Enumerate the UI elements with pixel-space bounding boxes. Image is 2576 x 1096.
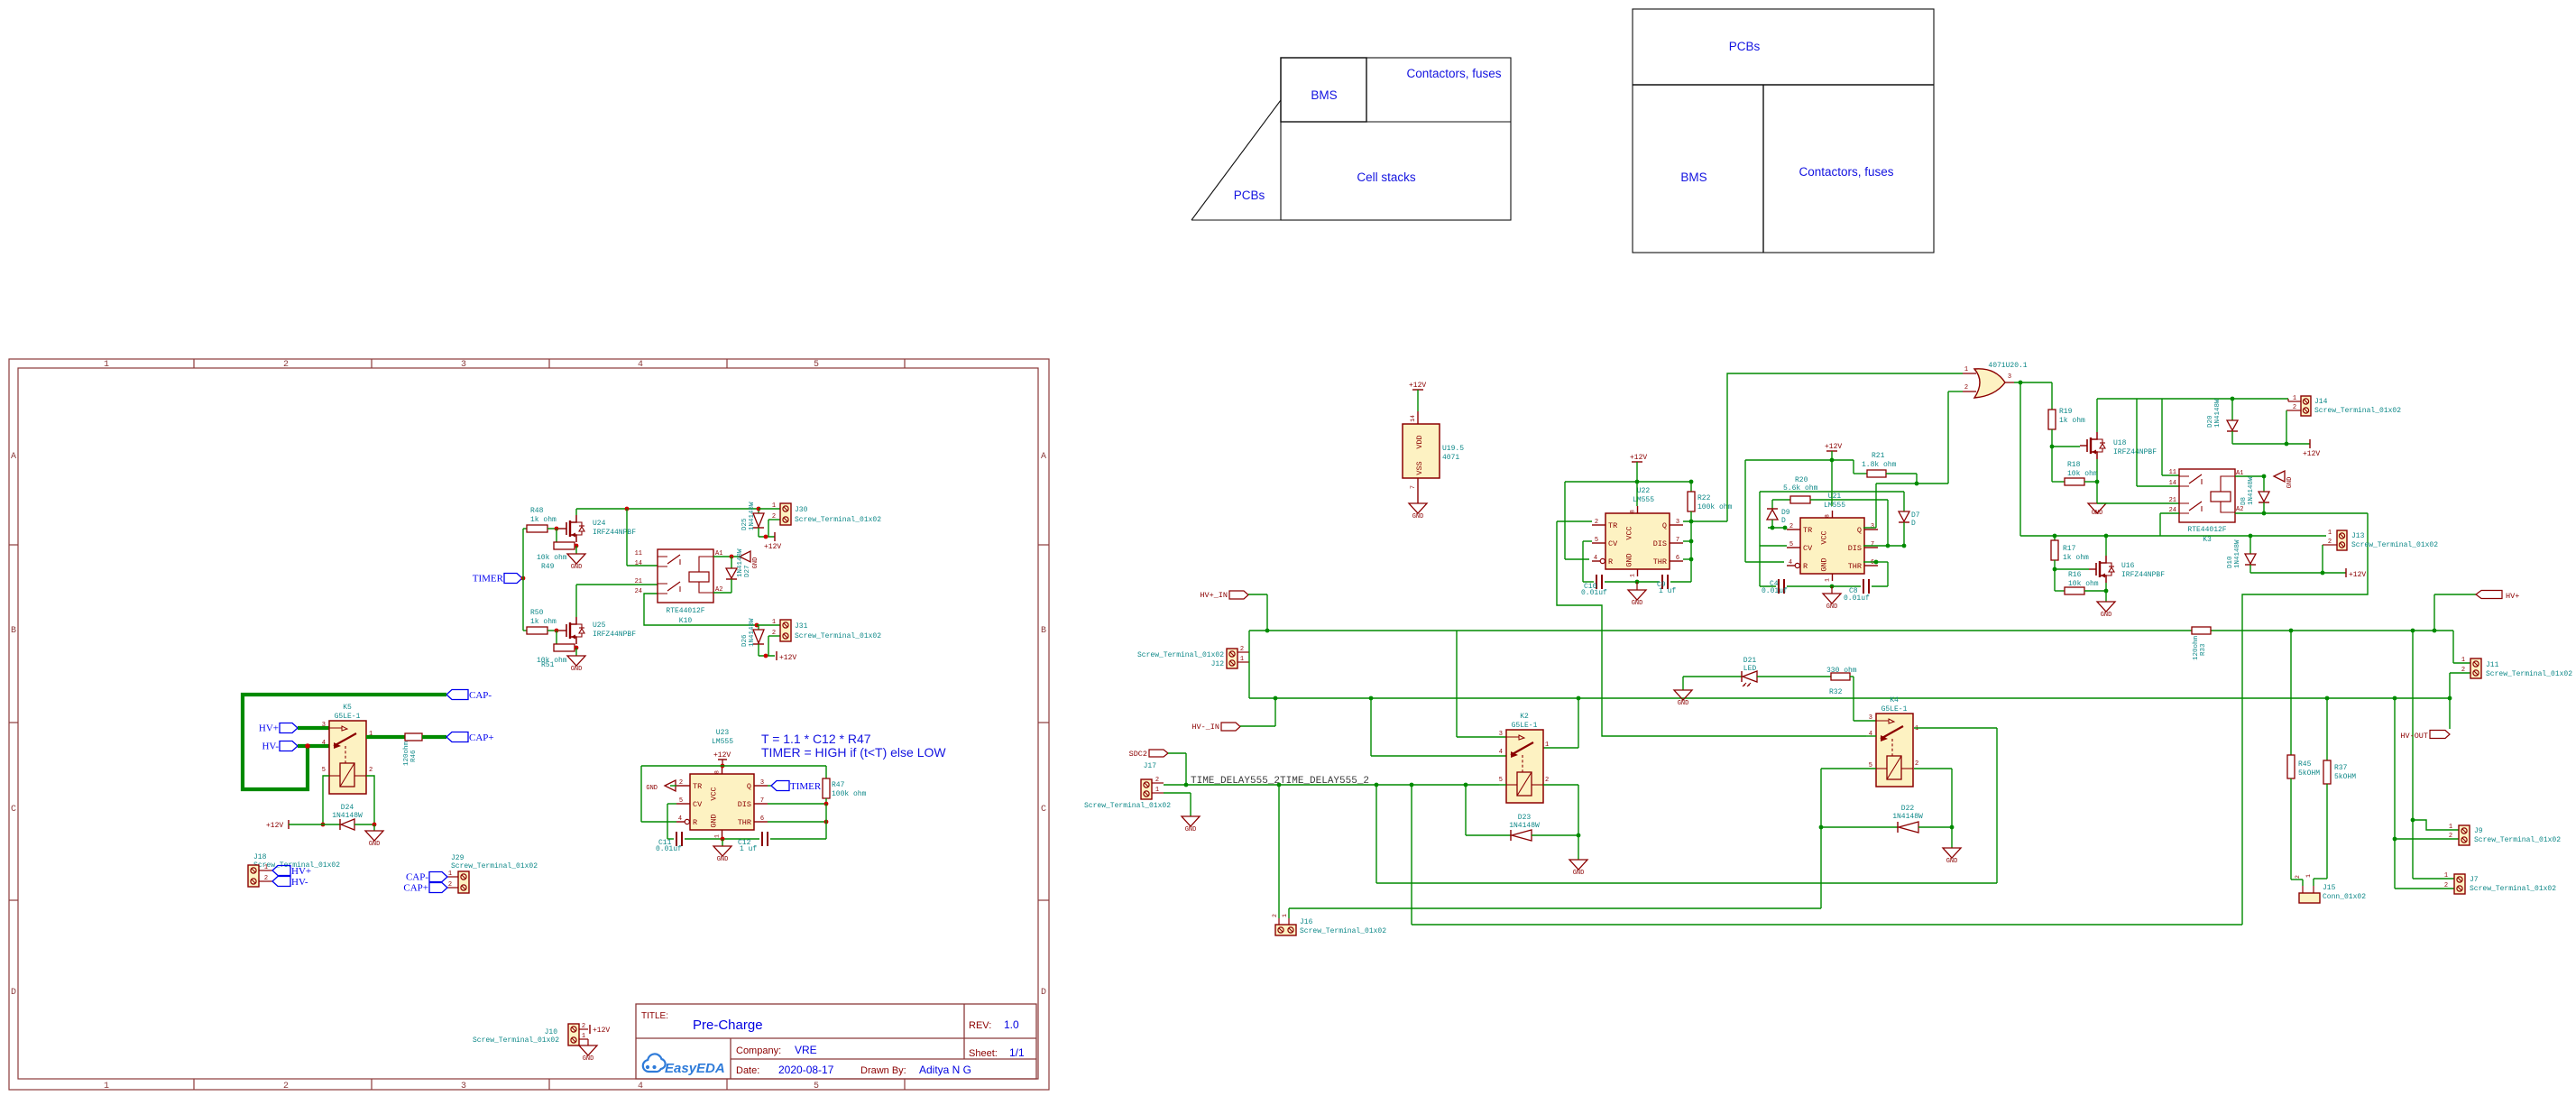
svg-text:R: R — [693, 818, 697, 827]
junction dot HV+ drop — [2433, 629, 2437, 633]
svg-text:4: 4 — [1594, 555, 1597, 562]
svg-text:0.01uf: 0.01uf — [1762, 587, 1788, 595]
svg-text:1: 1 — [1964, 366, 1968, 373]
resistor R22 100k — [1690, 482, 1692, 492]
svg-text:1k ohm: 1k ohm — [2059, 417, 2085, 425]
svg-text:IRFZ44NPBF: IRFZ44NPBF — [593, 631, 636, 639]
junction dot U16 drain tap — [2104, 534, 2109, 539]
svg-text:6: 6 — [760, 815, 764, 823]
rail K4pin5 net y1007 — [1289, 907, 1821, 909]
svg-text:HV+: HV+ — [2506, 592, 2519, 601]
svg-text:J12: J12 — [1211, 660, 1225, 668]
svg-text:1.0: 1.0 — [1004, 1018, 1019, 1031]
svg-text:3: 3 — [1499, 731, 1503, 738]
svg-text:G5LE-1: G5LE-1 — [335, 713, 361, 721]
net flag CAP+ — [446, 732, 468, 742]
junction dot A2 K3 — [2262, 511, 2267, 516]
block diagram 1 outer shape — [1191, 58, 1511, 220]
svg-text:R20: R20 — [1795, 476, 1808, 484]
svg-text:1N4148W: 1N4148W — [1509, 822, 1540, 830]
svg-text:1 uf: 1 uf — [740, 845, 757, 853]
screw terminal J31 — [757, 624, 780, 626]
svg-text:0.01uf: 0.01uf — [656, 845, 682, 853]
svg-text:+12V: +12V — [764, 543, 781, 551]
svg-text:1: 1 — [2449, 824, 2452, 831]
IC U22 LM555 — [1605, 513, 1670, 569]
svg-text:J29: J29 — [451, 854, 465, 862]
svg-text:5: 5 — [814, 1082, 819, 1091]
junction dot J9 chain top — [2411, 629, 2415, 633]
relay K4 G5LE-1 — [1876, 714, 1913, 787]
junction dot R37 top — [2325, 696, 2330, 701]
svg-text:U23: U23 — [716, 729, 730, 737]
junction dot J13 pin2 drop — [2321, 571, 2325, 576]
svg-text:CAP+: CAP+ — [403, 883, 428, 894]
resistor R19 1k — [2051, 382, 2053, 410]
junction dot J9 pin2 chain — [2393, 696, 2397, 701]
svg-text:1: 1 — [2444, 872, 2448, 880]
power +12V at J30 — [774, 532, 776, 541]
junction dot OR output — [2019, 381, 2023, 385]
svg-text:+12V: +12V — [779, 654, 796, 662]
junction dot D22 right — [1950, 825, 1955, 830]
wire Q U21 net to OR input 2 — [1876, 483, 1948, 484]
svg-text:4: 4 — [638, 1082, 643, 1091]
ground below U21 — [1831, 586, 1833, 594]
net flag HV- at J18 — [272, 877, 290, 887]
svg-text:TIMER: TIMER — [473, 574, 504, 585]
capacitor C9 1uf — [1661, 575, 1663, 589]
svg-text:4: 4 — [322, 740, 326, 747]
svg-text:C: C — [1041, 805, 1046, 815]
wire J31 pin2 to +12V — [768, 636, 769, 656]
resistor R51 — [556, 631, 557, 648]
svg-text:2: 2 — [2295, 875, 2301, 879]
svg-text:TR: TR — [1803, 526, 1812, 535]
wire HV-_IN to rail — [1240, 725, 1275, 727]
wire J9 pin1 — [2413, 820, 2459, 830]
svg-text:SDC2: SDC2 — [1129, 750, 1147, 759]
thick wire HV- to K5 pin4 — [298, 744, 329, 748]
svg-text:J16: J16 — [1300, 918, 1313, 926]
wire D20 to +12V — [2232, 443, 2310, 445]
IC U23 LM555 — [690, 774, 754, 830]
svg-text:TR: TR — [693, 782, 702, 791]
svg-text:R18: R18 — [2067, 461, 2081, 469]
wire TR U22 to K4 pin4 — [1557, 520, 1592, 522]
svg-text:J17: J17 — [1144, 762, 1157, 770]
junction dot U21 gnd — [1830, 585, 1835, 589]
junction dots TR U21 — [1771, 526, 1775, 530]
svg-text:Q: Q — [1857, 526, 1862, 535]
svg-text:CV: CV — [693, 800, 703, 809]
svg-text:+12V: +12V — [266, 822, 283, 830]
junction dot K2 pin4 drop — [1369, 696, 1374, 701]
svg-text:Company:: Company: — [736, 1045, 781, 1056]
junction dot U25 source — [575, 646, 579, 650]
svg-text:TIMER: TIMER — [790, 781, 822, 792]
svg-text:Screw_Terminal_01x02: Screw_Terminal_01x02 — [2474, 836, 2561, 844]
svg-text:EasyEDA: EasyEDA — [665, 1061, 725, 1076]
svg-text:D: D — [1911, 520, 1916, 528]
wire U18 drain rail — [2096, 399, 2098, 432]
svg-text:DIS: DIS — [1848, 544, 1862, 553]
junction dots TIME rail — [1277, 783, 1282, 787]
junction dot Q/R22 — [1689, 520, 1694, 524]
svg-text:C: C — [11, 805, 16, 815]
IC U21 LM555 — [1800, 518, 1864, 574]
ground flag at K3 A1 — [2274, 471, 2285, 482]
svg-text:J13: J13 — [2351, 532, 2365, 540]
junction dot J9 pin2 — [2393, 837, 2397, 842]
junction dot HV- bus — [305, 743, 310, 749]
svg-text:J14: J14 — [2314, 398, 2328, 406]
svg-text:1: 1 — [582, 1033, 585, 1040]
svg-text:U25: U25 — [593, 622, 606, 630]
svg-text:CAP-: CAP- — [406, 872, 428, 883]
ground below D23 — [1578, 835, 1579, 860]
svg-text:1: 1 — [104, 1082, 109, 1091]
svg-text:U16: U16 — [2121, 562, 2135, 570]
svg-text:21: 21 — [2169, 497, 2176, 504]
svg-text:1N4148W: 1N4148W — [749, 618, 756, 647]
wire drain to K3 pin14 — [2136, 399, 2138, 486]
wire to K3 pin11 — [2161, 399, 2163, 475]
capacitor C12 1uf — [761, 832, 763, 846]
svg-text:LM555: LM555 — [1633, 496, 1654, 504]
svg-text:2: 2 — [2444, 882, 2448, 889]
junction dot D20 top — [2231, 397, 2235, 401]
svg-text:1N4148W: 1N4148W — [332, 812, 363, 820]
svg-text:2: 2 — [1272, 914, 1278, 917]
svg-text:1 uf: 1 uf — [1659, 587, 1676, 595]
junction dot at TIMER — [521, 576, 526, 581]
svg-text:Drawn By:: Drawn By: — [860, 1065, 906, 1076]
OR gate U20.1 4071 — [1974, 369, 2005, 398]
resistor R37 5kOHM — [2326, 698, 2328, 760]
net flag TIMER (input, left sheet) — [504, 574, 522, 584]
svg-text:DIS: DIS — [1653, 539, 1667, 548]
diode D8 1N4148W — [2263, 476, 2265, 492]
svg-text:2: 2 — [772, 513, 776, 520]
wire K2 pin5 stub — [1499, 784, 1506, 786]
svg-text:D: D — [1041, 988, 1046, 998]
rail HV+ net y699 — [1249, 630, 2192, 631]
wire K4 pin1 to y979 rail — [1914, 727, 1997, 729]
ground below D22 — [1951, 827, 1953, 848]
ground below U19.5 — [1409, 503, 1427, 513]
diode D24 1N4148W — [341, 819, 354, 830]
resistor R16 10k — [2055, 590, 2065, 592]
ground at J10 — [587, 1039, 589, 1045]
svg-text:6: 6 — [1871, 559, 1874, 566]
svg-text:4071U20.1: 4071U20.1 — [1988, 362, 2027, 370]
wire U16 drain — [2105, 536, 2107, 556]
svg-text:Screw_Terminal_01x02: Screw_Terminal_01x02 — [2314, 407, 2401, 415]
svg-text:1: 1 — [448, 870, 452, 878]
svg-text:U22: U22 — [1637, 487, 1651, 495]
rail K4pin1 net y979 — [1375, 785, 1377, 883]
svg-text:2: 2 — [264, 875, 268, 882]
junction dot R45 top — [2289, 629, 2294, 633]
svg-text:6: 6 — [1676, 555, 1679, 562]
wire K2 pin1 to rail — [1543, 747, 1578, 749]
junction dot GND pin — [721, 837, 725, 842]
svg-text:1N4148W: 1N4148W — [749, 502, 756, 530]
bottom rail with caps — [667, 838, 674, 840]
rail TIME_DELAY y870 — [1164, 784, 1499, 786]
svg-text:D8: D8 — [2240, 497, 2248, 505]
svg-text:J30: J30 — [795, 506, 808, 514]
svg-text:K5: K5 — [343, 704, 352, 712]
svg-text:1: 1 — [1825, 578, 1831, 582]
ground below R18 / K3 pin21 — [2096, 482, 2098, 503]
diode D9 — [1771, 500, 1773, 509]
svg-text:Screw_Terminal_01x02: Screw_Terminal_01x02 — [1300, 927, 1386, 935]
svg-text:1: 1 — [2293, 395, 2296, 402]
junction dot THR U21 — [1874, 560, 1879, 565]
wire K2 pin3 drop — [1456, 631, 1458, 737]
svg-text:+12V: +12V — [1825, 443, 1842, 451]
svg-text:THR: THR — [738, 818, 751, 827]
wire +12V to U21 rail — [1831, 451, 1833, 506]
title block — [636, 1004, 1036, 1079]
svg-text:3: 3 — [760, 779, 764, 787]
wire J16 pin2 drop — [1278, 785, 1280, 918]
svg-text:2: 2 — [2461, 667, 2465, 674]
svg-text:1N4148W: 1N4148W — [737, 548, 744, 577]
svg-text:DIS: DIS — [738, 800, 751, 809]
wire K3 A1 to GND flag — [2235, 475, 2264, 477]
svg-text:5: 5 — [322, 767, 326, 774]
svg-text:4: 4 — [638, 360, 643, 370]
svg-text:2: 2 — [1789, 523, 1793, 530]
svg-text:3: 3 — [1871, 523, 1874, 530]
thick wire CAP- bus — [243, 695, 446, 789]
wire relay A1 to GND flag — [713, 556, 740, 557]
svg-text:Screw_Terminal_01x02: Screw_Terminal_01x02 — [2486, 670, 2572, 678]
capacitor C8 0.01uf — [1863, 579, 1864, 594]
diode D22 1N4148W — [1821, 826, 1898, 828]
svg-text:3: 3 — [1869, 714, 1872, 722]
diode D21 LED — [1683, 676, 1742, 677]
svg-text:R16: R16 — [2068, 571, 2082, 579]
junction dot A1 K3 — [2262, 474, 2267, 479]
svg-text:11: 11 — [635, 550, 642, 557]
svg-text:120ohm: 120ohm — [2193, 635, 2200, 660]
wire THR down — [1876, 561, 1888, 563]
wire to relay pin 14 — [626, 509, 628, 566]
junction dot U18 gate — [2050, 445, 2055, 449]
wire J9 pin2 — [2395, 838, 2459, 840]
block diagram 2 outer shape — [1633, 9, 1934, 253]
svg-text:2: 2 — [772, 630, 776, 637]
diode D25 1N4148W — [758, 509, 759, 513]
svg-text:7: 7 — [760, 797, 764, 805]
svg-text:2: 2 — [1915, 760, 1918, 768]
net flag CAP- at J29 — [429, 872, 447, 882]
ground below R51 — [575, 648, 577, 656]
wire K5 pin2 down — [366, 776, 374, 824]
bottom rail U22 with caps — [1583, 581, 1594, 583]
wire CV down — [667, 803, 676, 805]
svg-text:R21: R21 — [1872, 452, 1885, 460]
svg-text:14: 14 — [2169, 480, 2176, 487]
svg-text:5kOHM: 5kOHM — [2298, 769, 2320, 778]
wire J7 pin1 — [2412, 820, 2414, 879]
diode D23 1N4148W — [1465, 785, 1467, 835]
svg-text:T = 1.1 * C12 * R47: T = 1.1 * C12 * R47 — [761, 732, 871, 746]
wire K3 pin24 to J13 line — [2160, 512, 2179, 514]
junction dot THR — [824, 820, 829, 824]
svg-text:A: A — [1041, 452, 1046, 462]
net flag HV-OUT — [2449, 698, 2451, 729]
junction dot D10 top — [2249, 534, 2253, 539]
wire U16 source — [2105, 583, 2107, 591]
resistor R18 10k — [2051, 447, 2053, 482]
junction dot U16 gate — [2053, 567, 2057, 572]
wire K3 pin21 — [2097, 502, 2179, 504]
diode D10 1N4148W — [2249, 536, 2251, 554]
ground at D21 — [1682, 677, 1684, 690]
svg-text:GND: GND — [583, 1055, 594, 1063]
svg-text:5: 5 — [814, 360, 819, 370]
ground flag at U23 TR — [665, 780, 676, 791]
diode D20 1N4148W — [2231, 399, 2233, 420]
relay K5 G5LE-1 — [329, 721, 366, 794]
rail HV- net y774 — [1249, 697, 2450, 699]
svg-text:D25: D25 — [741, 518, 749, 530]
junction dots DIS U21 — [1886, 544, 1891, 548]
resistor R48 — [527, 525, 547, 532]
svg-text:Screw_Terminal_01x02: Screw_Terminal_01x02 — [2351, 541, 2438, 549]
thick wire HV+ to K5 pin3 — [298, 726, 329, 730]
svg-text:RTE44012F: RTE44012F — [666, 607, 704, 615]
screw terminal J16 — [1275, 925, 1296, 935]
svg-text:1: 1 — [1915, 725, 1918, 732]
junction dot HV+_IN — [1265, 629, 1270, 633]
svg-text:Conn_01x02: Conn_01x02 — [2323, 893, 2366, 901]
svg-text:R46: R46 — [410, 750, 418, 762]
svg-text:Contactors, fuses: Contactors, fuses — [1406, 67, 1501, 80]
wire J17 pin1 to ground — [1164, 792, 1191, 794]
svg-text:J10: J10 — [545, 1028, 558, 1036]
svg-text:2: 2 — [283, 1082, 289, 1091]
resistor R49 — [556, 529, 557, 546]
svg-text:GND: GND — [1625, 553, 1634, 566]
wire CV net U21 — [1760, 491, 1904, 493]
svg-text:Date:: Date: — [736, 1065, 759, 1076]
svg-text:B: B — [1041, 626, 1046, 636]
svg-text:VCC: VCC — [710, 787, 719, 800]
svg-text:R51: R51 — [541, 661, 555, 669]
wire DIS to R47 — [768, 803, 826, 805]
svg-text:5.6k ohm: 5.6k ohm — [1783, 484, 1818, 493]
wire rail to R pin U21 — [1744, 460, 1746, 562]
svg-text:100k ohm: 100k ohm — [832, 790, 867, 798]
wire DIS U22 — [1683, 540, 1691, 542]
svg-text:LM555: LM555 — [1824, 502, 1845, 510]
svg-text:4: 4 — [678, 815, 682, 823]
svg-text:D20: D20 — [2207, 415, 2214, 428]
junction dot R21 drop — [1915, 482, 1919, 486]
svg-text:D22: D22 — [1901, 805, 1915, 813]
svg-text:HV-: HV- — [262, 741, 279, 752]
svg-text:VCC: VCC — [1625, 526, 1634, 539]
transistor U24 IRFZ44NPBF — [559, 528, 566, 530]
svg-text:1: 1 — [2461, 657, 2465, 664]
wire DIS U21 — [1863, 545, 1904, 547]
svg-text:LM555: LM555 — [712, 738, 733, 746]
svg-text:0.01uf: 0.01uf — [1581, 589, 1607, 597]
transistor U16 IRFZ44NPBF — [2055, 568, 2089, 570]
svg-text:Screw_Terminal_01x02: Screw_Terminal_01x02 — [1084, 802, 1171, 810]
svg-text:1: 1 — [1545, 741, 1549, 749]
svg-text:J7: J7 — [2470, 876, 2479, 884]
svg-text:0.01uf: 0.01uf — [1844, 594, 1870, 603]
ground below R49 — [575, 546, 577, 554]
svg-text:VRE: VRE — [795, 1044, 817, 1056]
capacitor C10 0.01uf — [1596, 575, 1597, 589]
svg-text:J18: J18 — [253, 853, 267, 861]
svg-text:2: 2 — [679, 779, 683, 787]
svg-text:1: 1 — [1240, 656, 1244, 663]
wire THR U21 — [1863, 561, 1876, 563]
junction dot R22 top — [1689, 480, 1694, 484]
junction dot K4 pin5/D22 — [1819, 825, 1824, 830]
svg-text:2: 2 — [448, 881, 452, 889]
svg-text:+12V: +12V — [1630, 454, 1647, 462]
connector J15 Conn_01x02 — [2291, 879, 2303, 880]
svg-text:U18: U18 — [2113, 439, 2127, 447]
svg-text:TITLE:: TITLE: — [641, 1011, 668, 1021]
svg-text:VSS: VSS — [1415, 461, 1424, 474]
relay K2 G5LE-1 — [1506, 730, 1543, 803]
svg-text:Contactors, fuses: Contactors, fuses — [1799, 165, 1893, 179]
svg-text:LED: LED — [1743, 665, 1757, 673]
wire TIMER vertical — [522, 529, 524, 631]
svg-text:D27: D27 — [744, 565, 751, 577]
svg-text:3: 3 — [1676, 519, 1679, 526]
svg-text:24: 24 — [635, 588, 642, 595]
junction dot R17 tap — [2053, 534, 2057, 539]
svg-text:J15: J15 — [2323, 884, 2336, 892]
svg-text:D: D — [11, 988, 16, 998]
svg-text:D: D — [1781, 517, 1786, 525]
wire VCC rail U22 — [1565, 481, 1691, 483]
resistor R46 120ohm — [366, 735, 405, 739]
svg-text:D24: D24 — [341, 804, 354, 812]
svg-text:1/1: 1/1 — [1009, 1046, 1025, 1059]
junction dot R50/gate — [555, 629, 559, 633]
svg-text:R45: R45 — [2298, 760, 2312, 769]
svg-text:10k ohm: 10k ohm — [2068, 580, 2099, 588]
wire relay A2 — [713, 592, 731, 594]
svg-text:Screw_Terminal_01x02: Screw_Terminal_01x02 — [2470, 885, 2556, 893]
relay K10 RTE44012F — [658, 549, 713, 603]
svg-text:K2: K2 — [1520, 713, 1529, 721]
wire J13/OR net horizontal — [2020, 535, 2326, 537]
svg-text:7: 7 — [1676, 537, 1679, 544]
svg-text:GND: GND — [2092, 510, 2103, 517]
svg-text:J31: J31 — [795, 622, 808, 631]
svg-text:R32: R32 — [1829, 688, 1843, 696]
wire R32 to K4 pin3 — [1850, 676, 1854, 677]
svg-text:+12V: +12V — [713, 751, 731, 760]
wire HV+_IN to rail — [1248, 594, 1267, 595]
svg-text:10k ohm: 10k ohm — [2067, 470, 2098, 478]
svg-text:+12V: +12V — [2349, 571, 2366, 579]
